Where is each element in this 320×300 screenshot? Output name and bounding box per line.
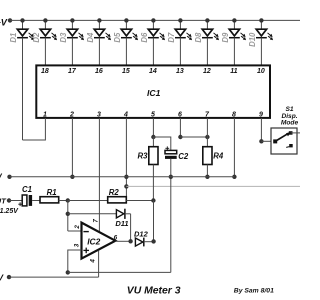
LED D2 — [32, 18, 56, 42]
svg-text:6: 6 — [114, 234, 118, 241]
label VU Meter 3 — [127, 286, 181, 297]
wire pin2 lead — [68, 230, 82, 232]
wire pin 9 to S1 — [259, 118, 275, 144]
svg-text:D6: D6 — [140, 32, 149, 43]
svg-text:OUT: OUT — [0, 196, 7, 205]
wire pin 5 stub — [151, 118, 155, 139]
node +V terminal — [0, 17, 12, 27]
wire pin3 lead — [68, 250, 82, 272]
LED D1 — [9, 18, 33, 42]
node INPUT terminal — [0, 196, 19, 215]
wire D8 cathode to pin 11 — [206, 38, 208, 65]
LED D8 — [194, 18, 218, 42]
LED D4 — [86, 18, 110, 42]
svg-text:16: 16 — [95, 68, 103, 75]
wire pin 6 stub — [178, 118, 182, 139]
svg-text:18: 18 — [41, 68, 49, 75]
svg-text:D5: D5 — [113, 32, 122, 43]
svg-text:D10: D10 — [248, 32, 257, 47]
wire D1 cathode to pin 1 — [22, 38, 24, 140]
wire -V rail — [9, 276, 99, 278]
LED D6 — [140, 18, 164, 42]
resistor R3 — [138, 137, 158, 201]
capacitor C2 — [165, 146, 189, 272]
wire pin 2 to -V rail — [70, 118, 74, 179]
svg-text:C1: C1 — [22, 185, 32, 194]
svg-text:4: 4 — [123, 112, 128, 119]
node + input to feedback return — [66, 270, 70, 274]
svg-text:5: 5 — [151, 112, 155, 119]
wire S1 to right edge — [291, 132, 300, 134]
svg-text:D11: D11 — [115, 219, 128, 228]
node -V mid terminal — [0, 173, 12, 182]
svg-text:R1: R1 — [47, 188, 57, 197]
svg-text:12: 12 — [203, 68, 211, 75]
IC U1 LED driver IC1 — [36, 65, 270, 118]
wire D7 cathode to pin 12 — [179, 38, 181, 65]
wire D6 cathode to pin 13 — [152, 38, 154, 65]
svg-text:13: 13 — [176, 68, 184, 75]
wire D9 cathode to pin 10 — [233, 38, 235, 65]
resistor R2 — [108, 188, 156, 203]
node -V terminal — [0, 272, 11, 282]
svg-text:3: 3 — [97, 112, 101, 119]
svg-text:D4: D4 — [86, 32, 95, 43]
wire feedback node vertical — [153, 201, 155, 242]
wire pin 5 node to C2 — [153, 137, 170, 150]
wire -V mid rail — [10, 176, 235, 178]
svg-text:D8: D8 — [194, 32, 203, 43]
svg-text:14: 14 — [149, 68, 157, 75]
svg-text:6: 6 — [178, 112, 182, 119]
svg-text:+V: +V — [0, 17, 8, 27]
wire pin4 to -V — [98, 251, 100, 278]
svg-text:7: 7 — [93, 219, 100, 223]
svg-text:IC1: IC1 — [147, 88, 161, 98]
svg-text:D1: D1 — [9, 33, 18, 43]
wire pin 4 to -V rail and R2 — [124, 118, 128, 201]
op-amp IC2 — [74, 219, 118, 264]
svg-text:D12: D12 — [134, 229, 149, 238]
svg-text:17: 17 — [68, 68, 77, 75]
svg-text:8: 8 — [232, 112, 236, 119]
switch S1 Disp. Mode — [271, 106, 298, 154]
svg-text:By Sam 8/01: By Sam 8/01 — [234, 287, 274, 294]
wire D10 cathode to pin 9 — [260, 38, 262, 65]
svg-text:D9: D9 — [221, 32, 230, 43]
svg-text:R2: R2 — [109, 188, 120, 197]
svg-text:2: 2 — [69, 112, 74, 119]
wire output lead — [115, 239, 132, 243]
svg-text:2: 2 — [74, 225, 81, 230]
svg-text:R4: R4 — [213, 152, 224, 161]
wire gray net to right edge — [126, 185, 300, 187]
wire D5 cathode to pin 14 — [125, 38, 127, 65]
wire pin 8 to -V rail — [232, 118, 236, 179]
svg-text:D7: D7 — [167, 32, 176, 43]
svg-text:4: 4 — [90, 259, 97, 264]
svg-text:VU Meter 3: VU Meter 3 — [127, 286, 181, 297]
svg-text:D3: D3 — [59, 32, 68, 43]
diode D11 — [115, 209, 130, 242]
svg-text:15: 15 — [122, 68, 130, 75]
svg-text:R3: R3 — [138, 152, 149, 161]
wire pin 3 to op-amp pin 7 (V+) — [98, 118, 100, 232]
wire D2 cathode to pin 17 — [44, 38, 46, 65]
LED D3 — [59, 18, 83, 42]
wire to D11 — [68, 213, 117, 215]
wire feedback return — [68, 271, 171, 273]
svg-text:C2: C2 — [178, 152, 189, 161]
LED D10 — [248, 18, 272, 47]
svg-text:+V: +V — [0, 272, 4, 282]
wire pin 7 to R4 — [206, 118, 208, 147]
svg-text:1: 1 — [43, 112, 47, 119]
capacitor C1 — [18, 185, 40, 206]
LED D7 — [167, 18, 191, 42]
svg-text:3: 3 — [74, 243, 81, 247]
LED D5 — [113, 18, 137, 42]
node pin4/gray tap — [124, 184, 128, 188]
svg-text:Mode: Mode — [281, 119, 299, 126]
resistor R1 — [40, 188, 68, 203]
svg-text:D2: D2 — [32, 32, 41, 43]
label By Sam 8/01 — [234, 287, 274, 294]
diode D12 — [134, 229, 156, 246]
wire pins 6-7 tie — [180, 135, 209, 139]
svg-text:~1.25V: ~1.25V — [0, 208, 19, 215]
wire to R2 — [68, 200, 108, 202]
wire D4 cathode to pin 15 — [98, 38, 100, 65]
wire D3 cathode to pin 16 — [71, 38, 73, 65]
svg-text:10: 10 — [257, 68, 265, 75]
resistor R4 — [203, 147, 224, 179]
node D11 branch — [66, 212, 70, 216]
wire +V rail — [10, 19, 300, 21]
LED D9 — [221, 18, 245, 42]
svg-text:IC2: IC2 — [87, 236, 100, 246]
svg-text:+V: +V — [0, 173, 3, 182]
wire input lead — [9, 200, 22, 202]
node inverting input junction — [66, 198, 70, 202]
wire pin 1 to D1 — [23, 118, 46, 140]
svg-text:11: 11 — [230, 68, 237, 75]
svg-text:9: 9 — [259, 112, 263, 119]
wire inv node down — [67, 201, 69, 232]
